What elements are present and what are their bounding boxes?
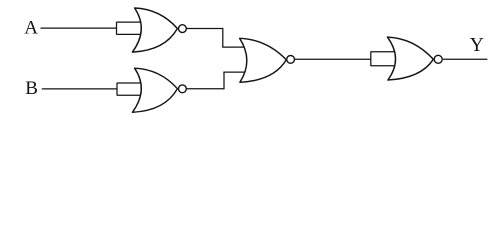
wire U1 jog vertical [222, 28, 224, 47]
svg-text:Y: Y [470, 35, 484, 56]
wire U2 out horizontal [186, 88, 224, 90]
NOR gate U2 body [132, 68, 177, 112]
NOR gate U1 output bubble [179, 25, 187, 33]
wire into U3 bottom input [223, 71, 245, 73]
NOR gate U4 body [387, 37, 433, 80]
wire B to gate U2 [42, 88, 117, 90]
NOR gate U4 output bubble [434, 55, 442, 63]
wire into U3 top input [222, 46, 243, 48]
input tie bar U1 [116, 22, 118, 35]
wire U1 out horizontal [186, 28, 223, 30]
input stub U2 bottom [117, 94, 141, 96]
input stub U1 top [117, 21, 141, 23]
NOR gate U2 output bubble [179, 85, 187, 93]
input stub U2 top [117, 82, 141, 84]
svg-text:B: B [25, 78, 38, 99]
wire A to gate U1 [41, 27, 117, 29]
svg-text:A: A [24, 18, 38, 39]
NOR gate U3 body [240, 38, 287, 82]
NOR gate U1 body [132, 8, 177, 52]
wire U4 out [443, 58, 487, 60]
input stub U4 top [371, 51, 395, 53]
wire U3 out to U4 [295, 58, 371, 60]
input tie bar U2 [116, 83, 118, 96]
input stub U4 bottom [371, 65, 394, 67]
NOR gate U3 output bubble [287, 56, 295, 64]
wire U2 jog vertical [223, 72, 225, 89]
input tie bar U4 [370, 51, 372, 66]
input stub U1 bottom [117, 33, 141, 35]
